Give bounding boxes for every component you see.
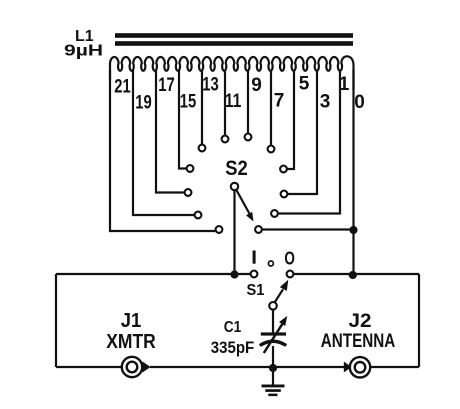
svg-text:J1: J1	[121, 310, 142, 332]
svg-text:15: 15	[180, 92, 197, 113]
svg-text:13: 13	[202, 75, 219, 96]
svg-text:1: 1	[339, 74, 350, 95]
svg-text:335pF: 335pF	[211, 338, 255, 357]
svg-text:O: O	[284, 249, 295, 269]
svg-text:ANTENNA: ANTENNA	[321, 331, 396, 352]
svg-text:19: 19	[135, 93, 152, 114]
svg-text:17: 17	[158, 75, 175, 96]
svg-text:S2: S2	[225, 157, 248, 180]
svg-text:11: 11	[225, 91, 242, 112]
svg-text:9µH: 9µH	[64, 43, 103, 60]
svg-text:0: 0	[354, 92, 365, 113]
svg-text:S1: S1	[247, 282, 265, 299]
svg-text:3: 3	[320, 92, 331, 113]
svg-text:XMTR: XMTR	[106, 331, 156, 353]
svg-text:J2: J2	[349, 311, 372, 332]
svg-text:5: 5	[299, 74, 310, 95]
svg-text:7: 7	[274, 91, 285, 112]
svg-text:9: 9	[251, 75, 262, 96]
svg-text:C1: C1	[224, 319, 242, 336]
svg-text:21: 21	[114, 77, 131, 98]
